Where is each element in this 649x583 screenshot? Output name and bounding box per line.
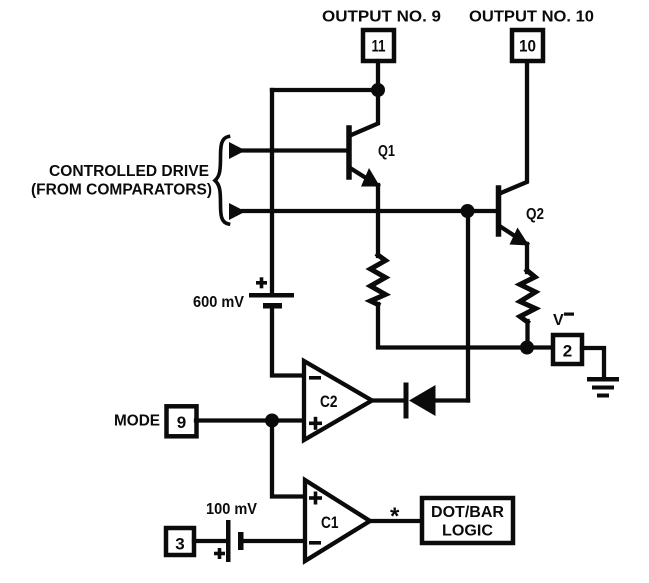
node A junction dot xyxy=(371,83,385,97)
svg-text:CONTROLLED DRIVE: CONTROLLED DRIVE xyxy=(49,163,209,180)
battery B1 600 mV xyxy=(249,293,294,309)
wire battery B2 to C1 inverting input xyxy=(243,539,304,543)
pin 2 box (V-) xyxy=(553,335,582,364)
wire arrow2 rail to Q2 base xyxy=(243,209,498,213)
box DOT/BAR LOGIC xyxy=(422,498,513,543)
ground xyxy=(587,377,619,398)
wire node B vertical drop xyxy=(466,211,470,401)
comparator C2 xyxy=(304,361,372,440)
svg-text:600 mV: 600 mV xyxy=(193,294,244,311)
battery B2 plus sign xyxy=(214,548,225,559)
wire Q2 emitter down to resistor xyxy=(525,244,529,272)
pin 9 box xyxy=(167,406,197,436)
svg-text:9: 9 xyxy=(177,413,186,432)
svg-text:(FROM COMPARATORS): (FROM COMPARATORS) xyxy=(31,182,212,199)
svg-text:LOGIC: LOGIC xyxy=(442,523,493,540)
transistor Q2 xyxy=(499,63,530,246)
svg-text:C2: C2 xyxy=(320,392,338,411)
svg-text:OUTPUT NO. 9: OUTPUT NO. 9 xyxy=(322,9,441,26)
node C junction dot (mode rail) xyxy=(265,414,279,428)
svg-text:*: * xyxy=(390,503,400,530)
svg-text:V: V xyxy=(553,312,564,329)
comparator C1 xyxy=(305,480,370,561)
svg-text:MODE: MODE xyxy=(114,413,160,430)
input arrow 2 (to Q2 base rail) xyxy=(229,203,246,220)
svg-text:OUTPUT NO. 10: OUTPUT NO. 10 xyxy=(469,9,594,26)
wire battery to C2 inverting input xyxy=(272,308,303,376)
pin 11 box xyxy=(363,30,394,61)
wire C1 output xyxy=(369,519,421,523)
wire R1 bottom to V- rail xyxy=(378,304,549,348)
wire diode to node B drop xyxy=(434,398,468,402)
svg-text:2: 2 xyxy=(563,342,572,361)
battery B1 600 mV plus sign xyxy=(256,277,267,288)
node B junction dot (Q2 base rail) xyxy=(461,204,475,218)
svg-text:C1: C1 xyxy=(321,513,339,532)
battery B2 100 mV xyxy=(226,520,244,562)
input arrow 1 (to Q1 base) xyxy=(229,142,246,159)
resistor R2 xyxy=(520,271,536,323)
pin 10 box xyxy=(512,30,543,61)
wire left rail vertical down to battery xyxy=(270,90,274,293)
label V- xyxy=(553,312,574,329)
svg-text:DOT/BAR: DOT/BAR xyxy=(431,504,504,521)
wire pin3 to battery B2 xyxy=(194,539,227,543)
svg-text:3: 3 xyxy=(175,535,184,554)
svg-text:10: 10 xyxy=(519,37,536,56)
svg-text:11: 11 xyxy=(372,37,386,56)
wire pin11 to node A xyxy=(376,61,380,90)
wire R2 bottom to V- node xyxy=(525,321,529,347)
wire arrow1 to Q1 base xyxy=(243,148,347,152)
resistor R1 xyxy=(371,255,386,305)
pin 3 box xyxy=(166,528,194,555)
brace for controlled drive inputs xyxy=(215,137,229,225)
transistor Q1 xyxy=(349,91,380,187)
diode D1 xyxy=(406,385,436,416)
wire Q1 emitter down to resistor xyxy=(376,185,380,256)
node V- junction dot xyxy=(520,341,534,355)
wire C2 output to diode xyxy=(371,398,405,402)
wire node C down to C1 plus input xyxy=(272,421,303,497)
svg-text:Q1: Q1 xyxy=(378,143,395,160)
svg-text:100 mV: 100 mV xyxy=(206,501,257,518)
wire pin2 to ground xyxy=(582,348,604,378)
wire top horizontal node A to left rail xyxy=(272,88,378,92)
svg-text:Q2: Q2 xyxy=(526,206,544,223)
wire pin9 to C2 non-inverting input xyxy=(196,418,303,422)
